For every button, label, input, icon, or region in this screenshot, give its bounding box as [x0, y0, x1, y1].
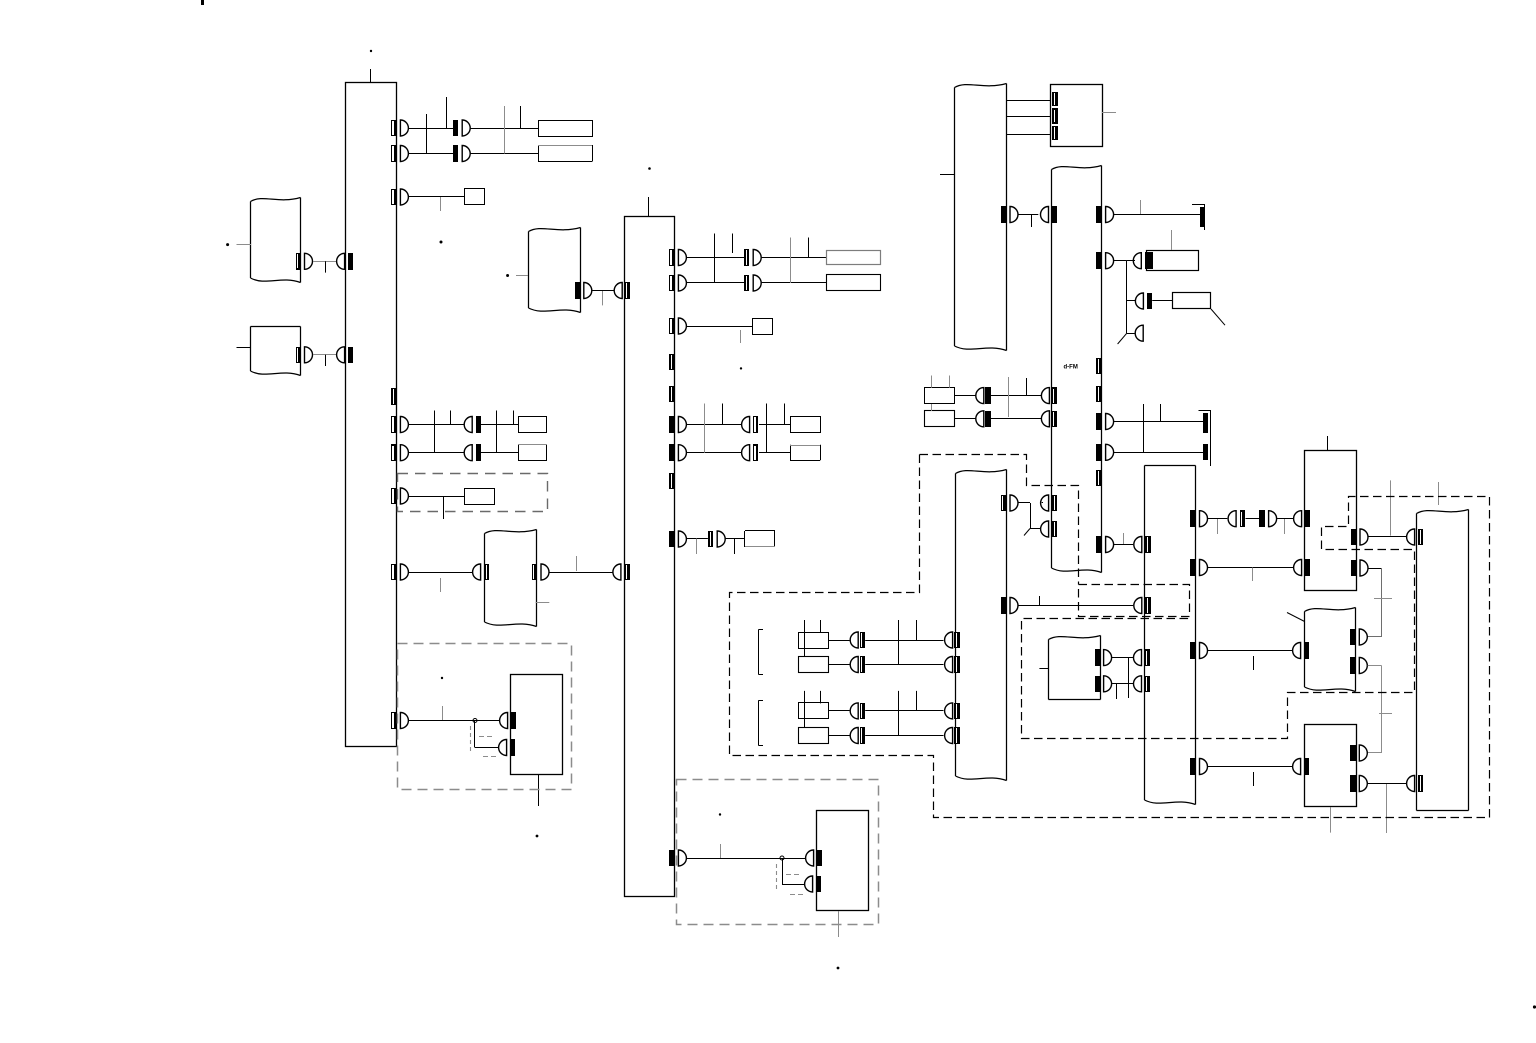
svg-text:d-FM: d-FM — [1064, 365, 1078, 371]
